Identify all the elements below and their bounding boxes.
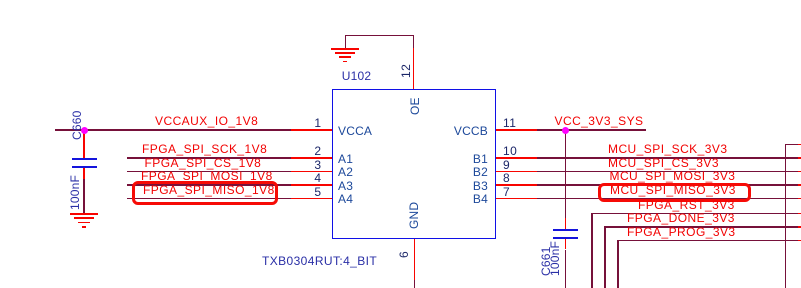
pin 2 stub (291, 157, 332, 159)
pin number 7 (503, 186, 510, 199)
net label MCU_SPI_MISO_3V3 (610, 184, 736, 197)
net label MCU_SPI_MOSI_3V3 (610, 170, 736, 183)
pin number 10 (503, 145, 517, 158)
U102 reference label (342, 70, 372, 83)
wire OE net vertical (413, 35, 415, 49)
capacitor C661 value 100nF rotated (549, 241, 562, 276)
pin 12 stub (413, 48, 415, 89)
net label FPGA_SPI_CS_1V8 (145, 157, 262, 170)
wire net VCC_3V3_SYS (537, 129, 647, 131)
net label MCU_SPI_CS_3V3 (608, 157, 719, 170)
highlight box around FPGA_SPI_MISO_1V8 (132, 181, 278, 205)
net label FPGA_PROG_3V3 (627, 226, 736, 239)
pin name B1 (452, 153, 488, 166)
pin name B4 (452, 193, 488, 206)
wire net MCU_SPI_SCK_3V3 (537, 157, 799, 159)
pin name GND rotated (408, 201, 421, 228)
wire net VCCAUX_IO_1V8 (55, 129, 290, 131)
wire OE net horizontal (345, 35, 415, 37)
pin name A1 (338, 153, 353, 166)
pin number 9 (503, 159, 510, 172)
capacitor C660 plates (72, 158, 97, 160)
pin number 6 rotated (398, 250, 411, 257)
net label MCU_SPI_SCK_3V3 (608, 143, 727, 156)
ground GND2 bars (70, 213, 98, 215)
pin 11 stub (496, 129, 537, 131)
capacitor C660 bottom stub (83, 168, 85, 179)
pin 1 stub (291, 129, 332, 131)
pin name B3 (452, 180, 488, 193)
offsheet pin stub row 213 (798, 213, 801, 215)
pin 4 stub (291, 184, 332, 186)
wire C660 to ground (83, 179, 85, 213)
wire top right net horizontal (785, 144, 798, 146)
U102 value label TXB0304RUT:4_BIT (262, 255, 377, 268)
wire net FPGA_PROG_3V3 vertical (617, 240, 619, 288)
pin name A3 (338, 180, 353, 193)
highlight box around MCU_SPI_MISO_3V3 (598, 183, 751, 202)
pin name VCCB (452, 125, 488, 138)
pin 9 stub (496, 171, 537, 173)
wire GND net to bottom edge (414, 280, 416, 288)
wire net FPGA_SPI_SCK_1V8 (127, 157, 291, 159)
wire net FPGA_DONE_3V3 vertical (604, 226, 606, 288)
wire net FPGA_RST_3V3 vertical (591, 213, 593, 288)
wire net FPGA_DONE_3V3 horizontal (604, 226, 798, 228)
ground GND1 top stem wire (345, 35, 347, 49)
pin number 1 (292, 117, 322, 130)
pin 6 stub (414, 239, 416, 280)
pin 5 stub (291, 198, 332, 200)
op-amp level shifter IC U102 body (332, 89, 496, 239)
capacitor C661 bottom stub (565, 239, 567, 249)
offsheet pin stub row 171 (798, 171, 801, 173)
offsheet pin stub row 158 (798, 157, 801, 159)
ground GND1 bars (331, 48, 359, 50)
junction node at C660 (81, 127, 88, 134)
pin 8 stub (496, 184, 537, 186)
pin number 12 rotated (400, 63, 413, 77)
net label FPGA_DONE_3V3 (627, 212, 735, 225)
capacitor C660 ref label rotated (71, 111, 84, 141)
capacitor C661 plates (553, 229, 578, 231)
pin number 8 (503, 172, 510, 185)
offsheet pin stub row 144 (798, 144, 801, 146)
offsheet pin stub row 198 (798, 198, 801, 200)
net label VCC_3V3_SYS (555, 115, 644, 128)
pin name OE rotated (409, 98, 422, 116)
wire VCC_3V3_SYS down to C661 (565, 130, 567, 218)
wire net FPGA_RST_3V3 horizontal (591, 213, 798, 215)
wire net FPGA_SPI_MISO_1V8 (127, 198, 291, 200)
wire C661 to bottom edge (565, 250, 567, 288)
offsheet pin stub row 241 (798, 240, 801, 242)
net label FPGA_SPI_MISO_1V8 (143, 184, 275, 197)
pin 3 stub (291, 171, 332, 173)
offsheet pin stub row 227 (798, 226, 801, 228)
net label FPGA_SPI_SCK_1V8 (142, 143, 267, 156)
pin name VCCA (338, 125, 372, 138)
pin number 2 (292, 145, 322, 158)
offsheet pin stub row 185 (798, 184, 801, 186)
wire net FPGA_SPI_CS_1V8 (127, 171, 291, 173)
capacitor C661 ref label rotated (540, 247, 553, 277)
pin 10 stub (496, 157, 537, 159)
wire net MCU_SPI_MISO_3V3 (537, 198, 799, 200)
wire bus vertical at right (785, 144, 787, 288)
capacitor C660 top stub (83, 130, 85, 158)
pin name A4 (338, 193, 353, 206)
net label FPGA_SPI_MOSI_1V8 (141, 170, 273, 183)
wire net FPGA_PROG_3V3 horizontal (617, 240, 798, 242)
pin number 4 (292, 172, 322, 185)
pin number 5 (292, 186, 322, 199)
capacitor C661 top stub (565, 218, 567, 229)
capacitor C660 value 100nF rotated (69, 175, 82, 210)
wire net FPGA_SPI_MOSI_1V8 (127, 184, 291, 186)
pin 7 stub (496, 198, 537, 200)
wire net MCU_SPI_MOSI_3V3 (537, 184, 799, 186)
junction node at C661 (562, 127, 569, 134)
net label FPGA_RST_3V3 (638, 199, 735, 212)
pin number 11 (503, 117, 516, 130)
pin number 3 (292, 159, 322, 172)
net label VCCAUX_IO_1V8 (155, 115, 258, 128)
pin name B2 (452, 166, 488, 179)
pin name A2 (338, 166, 353, 179)
wire net MCU_SPI_CS_3V3 (537, 171, 799, 173)
